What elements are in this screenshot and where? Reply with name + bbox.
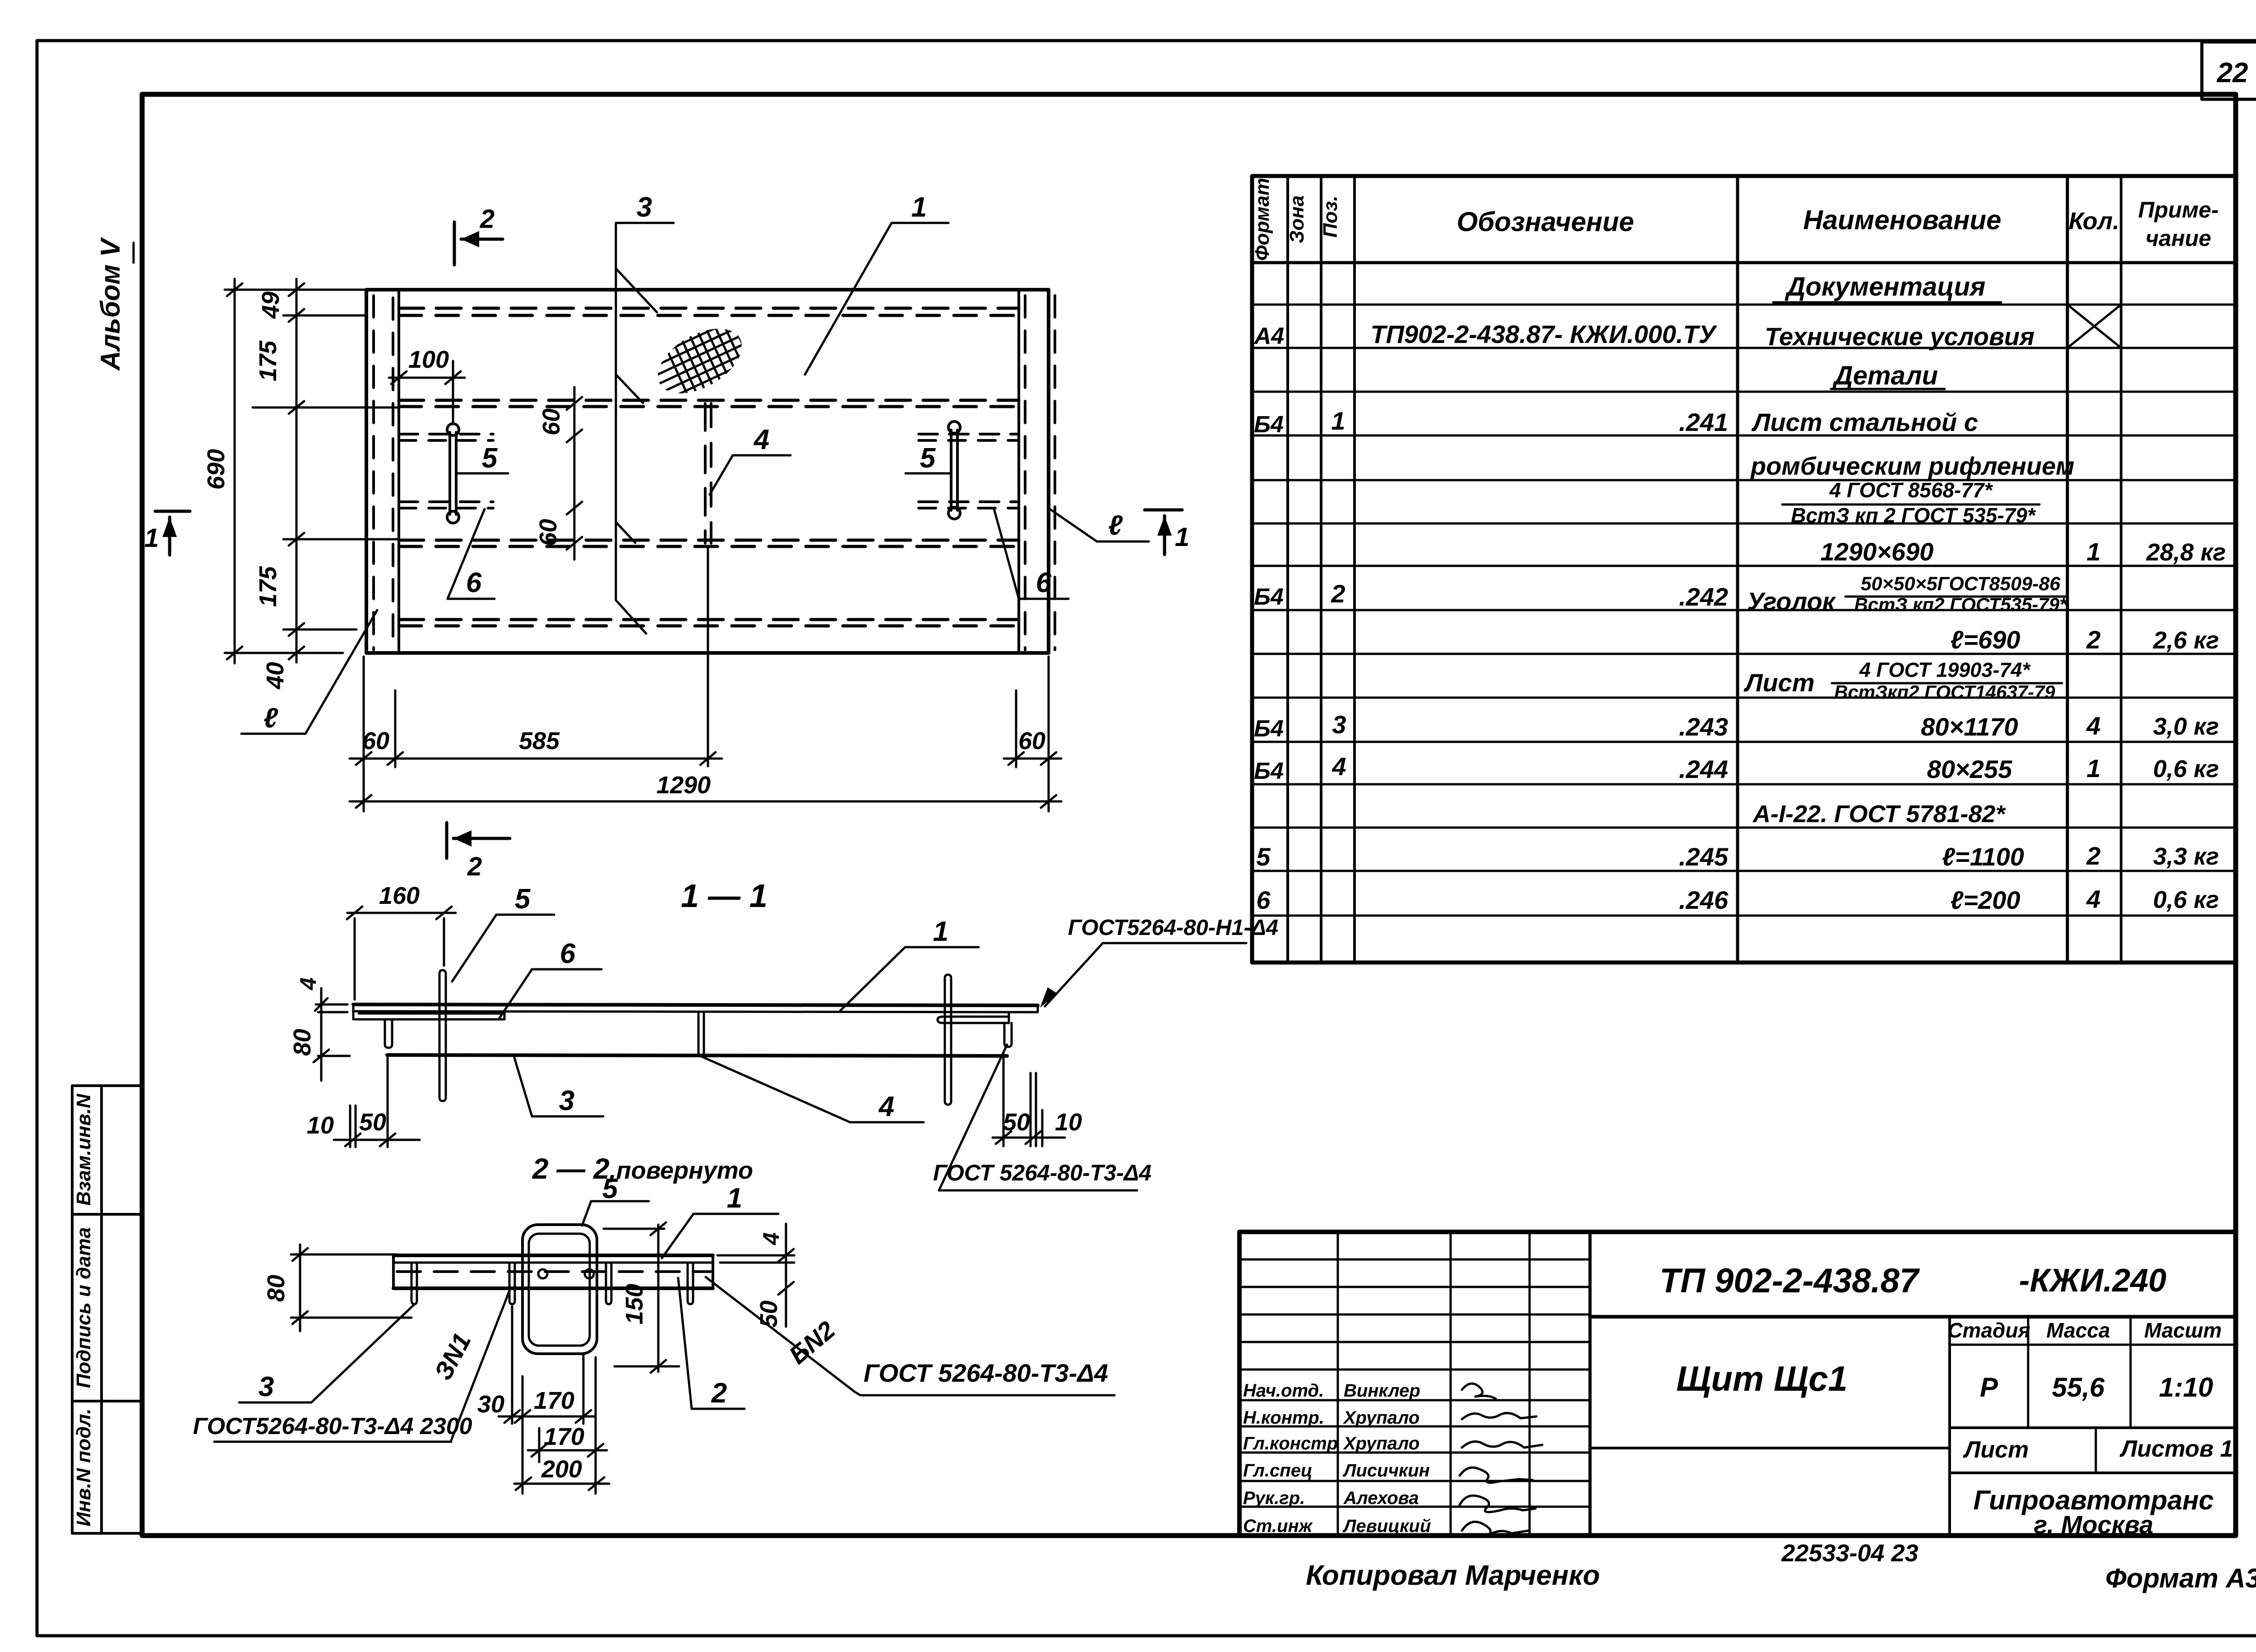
- svg-text:Инв.N подл.: Инв.N подл.: [73, 1408, 95, 1527]
- svg-text:3,0 кг: 3,0 кг: [2153, 713, 2219, 740]
- col zona: [1320, 176, 1322, 963]
- dim 690 line: [234, 279, 236, 663]
- svg-text:2,6 кг: 2,6 кг: [2153, 627, 2219, 654]
- label 2 sec2 leader: [678, 1278, 744, 1409]
- right pin item 5: [945, 975, 951, 1105]
- signature scribbles: [1460, 1384, 1542, 1535]
- svg-text:1 — 1: 1 — 1: [681, 878, 767, 914]
- svg-text:4: 4: [296, 977, 321, 990]
- svg-text:3: 3: [637, 192, 652, 223]
- svg-text:.241: .241: [1679, 408, 1728, 436]
- svg-text:ℓ=1100: ℓ=1100: [1942, 842, 2024, 871]
- svg-text:Взам.инв.N: Взам.инв.N: [73, 1093, 95, 1206]
- ext line 49: [283, 315, 366, 317]
- svg-text:Кол.: Кол.: [2069, 208, 2120, 235]
- left hidden leg dashed: [372, 296, 375, 650]
- svg-text:2: 2: [2086, 625, 2100, 654]
- col naimenovanie: [2066, 176, 2069, 963]
- item 6 bar left end step: [504, 1012, 506, 1019]
- album underline: [133, 243, 135, 263]
- left slot bottom dashed pair: [399, 500, 493, 503]
- item 6 bar left top: [359, 1013, 504, 1015]
- svg-text:ВстЗкп2 ГОСТ14637-79: ВстЗкп2 ГОСТ14637-79: [1834, 681, 2055, 703]
- svg-text:ЗN1: ЗN1: [429, 1328, 476, 1385]
- svg-text:175: 175: [254, 340, 282, 381]
- svg-text:6: 6: [466, 567, 482, 598]
- svg-text:49: 49: [257, 292, 284, 319]
- stiffener hook 2: [509, 1263, 515, 1304]
- weld leader 3N1: [451, 1290, 510, 1440]
- dims 50 10 right: [993, 1054, 1065, 1146]
- ticks 60s: [567, 397, 582, 550]
- dim 1290 line: [350, 801, 1061, 803]
- stiffener row2 bottom dashed: [399, 405, 1019, 408]
- right outer hidden dashed: [1054, 296, 1056, 650]
- svg-text:1290: 1290: [656, 772, 711, 799]
- ext right corner: [1048, 657, 1050, 811]
- svg-text:Масшт: Масшт: [2144, 1319, 2222, 1342]
- svg-text:Формат А3: Формат А3: [2105, 1563, 2256, 1593]
- angle leg left: [385, 1019, 392, 1048]
- stiffener row1 top dashed: [399, 307, 1019, 310]
- dim 4 right sec2: [717, 1224, 794, 1327]
- label 3 leader: [616, 223, 674, 634]
- hidden line sec2: [397, 1270, 711, 1273]
- left angle flange inner edge: [398, 290, 400, 653]
- svg-text:80: 80: [263, 1275, 290, 1302]
- stiffener row3 bottom dashed: [399, 545, 1019, 548]
- svg-text:Зона: Зона: [1286, 195, 1308, 243]
- svg-text:Копировал Марченко: Копировал Марченко: [1306, 1560, 1600, 1591]
- svg-text:100: 100: [408, 346, 449, 373]
- bottom dim line 60-585: [350, 758, 722, 760]
- header bottom line: [1252, 261, 2236, 264]
- svg-text:Лист стальной с: Лист стальной с: [1751, 408, 1978, 436]
- svg-text:30: 30: [477, 1391, 504, 1418]
- svg-text:4: 4: [878, 1091, 894, 1122]
- svg-text:.242: .242: [1679, 583, 1728, 611]
- right hidden leg dashed: [1024, 296, 1026, 650]
- stamp upper rows: [1239, 1259, 1590, 1507]
- svg-text:Лист: Лист: [1963, 1437, 2029, 1463]
- ext line bottom: [225, 652, 343, 654]
- label 5 sec1 leader: [452, 915, 554, 981]
- svg-text:Наименование: Наименование: [1803, 205, 2001, 235]
- svg-text:Р: Р: [1980, 1372, 1998, 1402]
- svg-text:1: 1: [144, 523, 159, 553]
- stiffener row3 top dashed: [399, 539, 1019, 542]
- svg-text:Нач.отд.: Нач.отд.: [1243, 1381, 1324, 1401]
- beam bottom edge sec2: [393, 1286, 713, 1290]
- dim 160: [347, 907, 456, 1000]
- svg-text:Обозначение: Обозначение: [1456, 207, 1634, 237]
- svg-text:2: 2: [480, 204, 495, 234]
- svg-text:5: 5: [1256, 842, 1271, 871]
- svg-text:-КЖИ.240: -КЖИ.240: [2019, 1263, 2167, 1299]
- stiffener row4 top dashed: [399, 618, 1019, 621]
- section mark 2 top: [454, 222, 503, 265]
- svg-text:60: 60: [1018, 727, 1045, 754]
- svg-text:4: 4: [753, 424, 769, 455]
- stamp col lines: [1337, 1232, 1339, 1536]
- col oboznachenie: [1736, 176, 1739, 963]
- svg-text:4: 4: [2086, 712, 2100, 740]
- label 5 right leader: [906, 472, 950, 475]
- ext item4 centerline: [707, 548, 709, 766]
- label 1 sec2 leader: [662, 1214, 778, 1258]
- label 3 sec2 leader: [239, 1304, 415, 1402]
- svg-text:Документация: Документация: [1784, 272, 1986, 301]
- svg-text:170: 170: [544, 1423, 584, 1450]
- stiffener bottom edge: [387, 1055, 1007, 1056]
- svg-text:6: 6: [1256, 886, 1271, 914]
- item 6 bar left bottom: [355, 1018, 504, 1021]
- svg-text:22: 22: [2217, 57, 2248, 88]
- svg-text:Листов 1: Листов 1: [2119, 1436, 2233, 1462]
- svg-text:2: 2: [1331, 579, 1345, 608]
- svg-text:1: 1: [727, 1183, 742, 1214]
- section mark 1 left: [155, 511, 190, 555]
- svg-text:170: 170: [534, 1387, 574, 1414]
- svg-text:2: 2: [2086, 842, 2100, 870]
- stiffener row2 top dashed: [399, 399, 1019, 402]
- svg-text:Левицкий: Левицкий: [1342, 1516, 1431, 1536]
- plate bottom edge: [353, 1011, 1038, 1012]
- label 4 sec1 leader: [701, 1056, 924, 1122]
- dim 80 left: [314, 1029, 350, 1081]
- svg-text:0,6 кг: 0,6 кг: [2153, 886, 2219, 913]
- svg-text:Щит Щс1: Щит Щс1: [1676, 1359, 1848, 1398]
- svg-text:ℓ=690: ℓ=690: [1950, 625, 2020, 654]
- middle stiffener item 4: [698, 1012, 700, 1055]
- svg-text:г. Москва: г. Москва: [2034, 1510, 2154, 1539]
- dim 4 thickness left: [315, 988, 347, 1029]
- svg-text:ТП 902-2-438.87: ТП 902-2-438.87: [1660, 1262, 1920, 1300]
- label 4 leader: [710, 455, 791, 495]
- svg-text:4 ГОСТ 19903-74*: 4 ГОСТ 19903-74*: [1859, 658, 2031, 681]
- row lines: [1252, 305, 2236, 916]
- item 6 bar right end step: [1008, 1013, 1010, 1023]
- plate outline item 1: [366, 290, 1049, 653]
- svg-text:60: 60: [538, 408, 565, 435]
- svg-text:80×255: 80×255: [1927, 755, 2012, 783]
- svg-text:50×50×5ГОСТ8509-86: 50×50×5ГОСТ8509-86: [1861, 573, 2061, 595]
- svg-text:Алехова: Алехова: [1343, 1488, 1419, 1508]
- svg-text:6: 6: [1036, 567, 1052, 598]
- svg-text:40: 40: [262, 662, 289, 689]
- svg-text:4: 4: [1331, 752, 1346, 781]
- plate left end cap: [352, 1004, 355, 1019]
- svg-text:ℓ=200: ℓ=200: [1950, 886, 2020, 914]
- svg-text:4: 4: [758, 1232, 784, 1245]
- svg-text:Хрупало: Хрупало: [1343, 1434, 1419, 1453]
- label 6 sec1 leader: [499, 969, 601, 1018]
- svg-text:3,3 кг: 3,3 кг: [2153, 843, 2219, 870]
- svg-text:ГОСТ 5264-80-Т3-Δ4: ГОСТ 5264-80-Т3-Δ4: [933, 1160, 1151, 1185]
- svg-text:ВстЗ кп2 ГОСТ535-79*: ВстЗ кп2 ГОСТ535-79*: [1854, 594, 2067, 615]
- svg-text:А4: А4: [1253, 323, 1285, 349]
- svg-text:585: 585: [519, 727, 560, 754]
- svg-text:55,6: 55,6: [2052, 1372, 2105, 1402]
- pin ext up: [452, 361, 454, 424]
- item 6 bar right top: [938, 1017, 1009, 1023]
- svg-text:80: 80: [289, 1029, 316, 1056]
- svg-text:1290×690: 1290×690: [1821, 537, 1934, 566]
- svg-text:60: 60: [535, 519, 562, 546]
- svg-text:3: 3: [1332, 710, 1346, 739]
- svg-text:чание: чание: [2145, 226, 2211, 251]
- plate right end cap: [1037, 1005, 1039, 1012]
- svg-text:ГОСТ5264-80-Н1-Δ4: ГОСТ5264-80-Н1-Δ4: [1068, 916, 1278, 940]
- svg-text:.246: .246: [1679, 886, 1729, 914]
- svg-text:Гл.спец: Гл.спец: [1243, 1461, 1313, 1481]
- label l right leader: [1049, 509, 1149, 541]
- svg-text:Н.контр.: Н.контр.: [1243, 1408, 1324, 1428]
- dim 60x2 vertical line: [573, 387, 576, 560]
- ext line 175 top: [253, 407, 397, 409]
- stiffener hook 4: [688, 1263, 693, 1304]
- plate top edge: [353, 1004, 1038, 1005]
- col poz: [1353, 176, 1356, 963]
- svg-text:4 ГОСТ 8568-77*: 4 ГОСТ 8568-77*: [1829, 478, 1993, 502]
- page number box: [2202, 42, 2256, 99]
- label 1 sec1 leader: [840, 947, 979, 1011]
- plate top edge sec2: [393, 1254, 713, 1257]
- left slot top dashed pair: [399, 433, 493, 435]
- label 6 left leader: [448, 509, 495, 599]
- dims 10 50 left: [334, 1056, 420, 1147]
- svg-text:1: 1: [1331, 407, 1345, 435]
- svg-text:ВстЗ кп 2 ГОСТ 535-79*: ВстЗ кп 2 ГОСТ 535-79*: [1791, 504, 2036, 527]
- svg-text:3: 3: [259, 1371, 274, 1402]
- right slot top dashed pair: [919, 433, 1019, 435]
- svg-text:Подпись и дата: Подпись и дата: [73, 1227, 95, 1388]
- svg-text:Приме-: Приме-: [2138, 197, 2219, 222]
- svg-text:1: 1: [2086, 754, 2100, 782]
- svg-text:ТП902-2-438.87- КЖИ.000.ТУ: ТП902-2-438.87- КЖИ.000.ТУ: [1370, 320, 1717, 348]
- svg-text:60: 60: [362, 727, 389, 754]
- svg-text:2: 2: [711, 1378, 727, 1409]
- label 6 right leader: [994, 509, 1068, 599]
- ticks bottom dims: [356, 752, 1056, 808]
- dim 150: [604, 1222, 679, 1373]
- label 5 sec2 leader: [582, 1201, 649, 1226]
- stiffener hook 1: [411, 1263, 417, 1304]
- svg-text:Лисичкин: Лисичкин: [1342, 1461, 1430, 1481]
- svg-text:1: 1: [911, 192, 927, 223]
- svg-text:Масса: Масса: [2046, 1319, 2110, 1342]
- svg-text:2: 2: [467, 852, 482, 881]
- left end cap sec2: [392, 1255, 395, 1288]
- right mini table: [1948, 1317, 1951, 1536]
- svg-text:Формат: Формат: [1251, 178, 1273, 261]
- sec2 bottom dims: [499, 1306, 609, 1494]
- ext line top: [225, 289, 370, 291]
- svg-text:Гл.констр: Гл.констр: [1243, 1434, 1338, 1453]
- stamp outline: [1239, 1232, 2236, 1536]
- ticks left chain: [227, 283, 304, 659]
- ext left 60: [394, 690, 397, 767]
- shield cell bottom: [1590, 1447, 1950, 1449]
- loop weld circle right: [585, 1269, 594, 1278]
- middle stiffener item 4 hidden: [704, 403, 707, 543]
- svg-text:Альбом V: Альбом V: [95, 236, 125, 371]
- svg-text:5: 5: [602, 1173, 619, 1204]
- svg-text:1: 1: [933, 916, 948, 947]
- ext right 60: [1015, 690, 1017, 767]
- left stamp boxes: [72, 1086, 142, 1533]
- svg-text:1: 1: [1175, 523, 1189, 552]
- svg-text:5: 5: [515, 884, 531, 915]
- label 5 left leader: [458, 472, 508, 475]
- label 3 sec1 leader: [514, 1058, 603, 1116]
- stiffener row1 bottom dashed: [399, 314, 1019, 317]
- dim chain line left: [296, 279, 298, 662]
- svg-text:Б4: Б4: [1254, 758, 1284, 784]
- svg-text:Лист: Лист: [1743, 668, 1815, 697]
- svg-text:1:10: 1:10: [2159, 1372, 2213, 1402]
- chequer hatch patch: [632, 270, 803, 429]
- svg-text:3: 3: [559, 1085, 574, 1116]
- col format: [1286, 176, 1289, 963]
- plate bottom edge sec2: [393, 1262, 713, 1264]
- svg-text:Винклер: Винклер: [1344, 1381, 1420, 1401]
- svg-text:Рук.гр.: Рук.гр.: [1243, 1488, 1305, 1508]
- svg-text:200: 200: [541, 1456, 582, 1483]
- dim 80 sec2: [291, 1245, 411, 1331]
- title divider: [1590, 1315, 2236, 1319]
- svg-text:160: 160: [379, 882, 420, 909]
- svg-text:ромбическим рифлением: ромбическим рифлением: [1750, 452, 2075, 480]
- svg-text:А-I-22. ГОСТ 5781-82*: А-I-22. ГОСТ 5781-82*: [1752, 801, 2006, 828]
- svg-text:ℓ: ℓ: [264, 703, 278, 734]
- svg-text:ГОСТ 5264-80-Т3-Δ4: ГОСТ 5264-80-Т3-Δ4: [864, 1359, 1108, 1387]
- svg-text:28,8 кг: 28,8 кг: [2146, 539, 2226, 566]
- svg-text:1: 1: [2086, 537, 2100, 566]
- svg-text:4: 4: [2086, 885, 2100, 913]
- svg-text:Хрупало: Хрупало: [1343, 1408, 1419, 1428]
- ext left corner: [363, 657, 365, 811]
- svg-text:Ст.инж: Ст.инж: [1243, 1516, 1313, 1536]
- svg-text:80×1170: 80×1170: [1921, 713, 2018, 741]
- label 1 leader: [805, 223, 948, 375]
- row tu: cross: [2067, 305, 2121, 348]
- svg-text:Б4: Б4: [1254, 716, 1284, 742]
- bottom dim line 60 right: [1004, 758, 1061, 760]
- weld leader BN2: [706, 1277, 855, 1392]
- left pin item 5: [447, 424, 459, 523]
- svg-text:6: 6: [560, 938, 576, 969]
- svg-text:22533-04 23: 22533-04 23: [1781, 1540, 1918, 1567]
- svg-text:Поз.: Поз.: [1319, 195, 1341, 237]
- svg-text:690: 690: [203, 449, 230, 490]
- svg-text:50: 50: [755, 1300, 782, 1328]
- svg-text:Стадия: Стадия: [1947, 1319, 2030, 1342]
- stiffener hook 3: [606, 1263, 611, 1304]
- table outline: [1252, 176, 2236, 963]
- svg-text:10: 10: [1055, 1109, 1082, 1136]
- svg-text:175: 175: [254, 566, 282, 607]
- svg-text:Технические условия: Технические условия: [1765, 322, 2034, 351]
- svg-text:5: 5: [482, 443, 498, 474]
- svg-text:5: 5: [920, 443, 936, 474]
- svg-text:10: 10: [307, 1112, 334, 1139]
- left pin item 5: [439, 970, 446, 1101]
- svg-text:.244: .244: [1679, 755, 1728, 783]
- svg-text:50: 50: [1003, 1109, 1030, 1136]
- svg-text:Б4: Б4: [1254, 412, 1284, 438]
- svg-text:2 — 2,повернуто: 2 — 2,повернуто: [532, 1152, 753, 1185]
- svg-text:0,6 кг: 0,6 кг: [2153, 755, 2219, 782]
- loop weld circle left: [538, 1269, 547, 1278]
- svg-text:.245: .245: [1679, 842, 1729, 871]
- svg-text:Уголок: Уголок: [1747, 587, 1836, 615]
- right end cap sec2: [712, 1255, 714, 1288]
- ticks 100: [391, 371, 461, 384]
- svg-text:ℓ: ℓ: [1108, 510, 1123, 541]
- svg-text:50: 50: [359, 1109, 386, 1136]
- section mark 1 right: [1145, 510, 1182, 555]
- svg-text:ГОСТ5264-80-Т3-Δ4 2300: ГОСТ5264-80-Т3-Δ4 2300: [193, 1413, 472, 1439]
- handle loop inner: [529, 1234, 590, 1346]
- svg-text:.243: .243: [1679, 713, 1728, 741]
- stiffener row4 bottom dashed: [399, 625, 1019, 628]
- svg-text:Детали: Детали: [1832, 361, 1938, 390]
- section mark 2 bottom: [447, 823, 510, 858]
- col kol: [2120, 176, 2122, 963]
- angle leg right: [1004, 1023, 1012, 1047]
- right angle flange inner edge: [1017, 290, 1020, 653]
- left flange hidden dashed: [392, 298, 394, 649]
- ext line 175 bottom: [283, 538, 397, 541]
- svg-text:Б4: Б4: [1254, 584, 1284, 610]
- ext line 40: [283, 629, 356, 631]
- right slot bottom dashed pair: [919, 500, 1019, 503]
- dim 100 line: [389, 377, 465, 379]
- right pin item 5: [948, 421, 960, 519]
- svg-text:150: 150: [621, 1284, 648, 1324]
- label l left leader: [241, 610, 377, 734]
- handle loop outer: [522, 1225, 597, 1354]
